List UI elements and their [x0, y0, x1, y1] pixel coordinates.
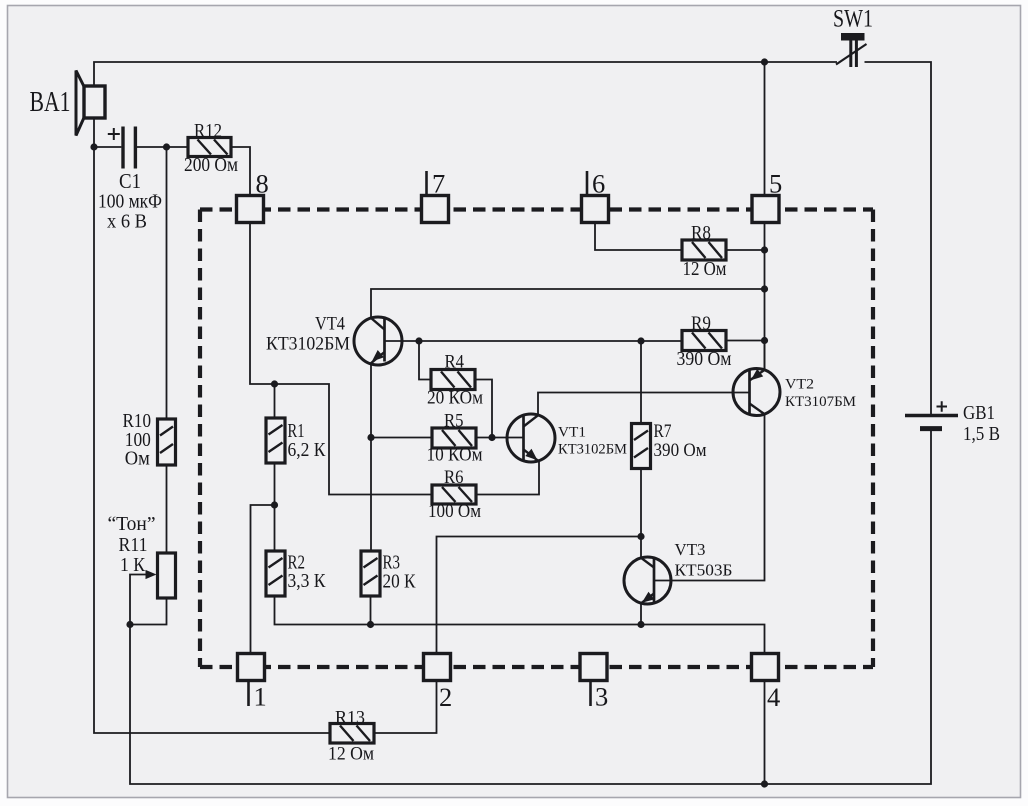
wire VT4 collector up and across to pin 5 column [371, 289, 765, 318]
wire R7 top lead [640, 341, 642, 424]
switch SW1 [836, 33, 867, 67]
wire R9 right to pin 5 column [726, 340, 765, 342]
resistor R12 [188, 138, 231, 157]
speaker BA1 [76, 71, 105, 136]
wire R1 node to pin 1 [251, 505, 275, 654]
wire SW1 to battery positive [865, 62, 932, 414]
wire pin 2 top to VT3 collector node [437, 537, 642, 654]
junction pin8/R1 [271, 380, 278, 387]
pin 3 stub [589, 681, 592, 706]
svg-text:VT4: VT4 [315, 315, 345, 335]
resistor R9 [682, 331, 726, 351]
wire VT4 emitter down to R3 top [370, 363, 372, 551]
svg-text:200 Ом: 200 Ом [184, 154, 238, 176]
svg-text:R12: R12 [194, 120, 222, 142]
wire C1 node down to R10 top [166, 147, 168, 420]
battery GB1 [905, 401, 958, 428]
pin 7 stub [425, 171, 428, 195]
junction top rail/pin5 [761, 58, 768, 65]
resistor R8 [682, 240, 726, 260]
wire VT3 base to VT2 collector [654, 414, 765, 580]
wire VT2 emitter up to R9 node [764, 341, 766, 370]
svg-text:C1: C1 [119, 169, 141, 193]
svg-text:2: 2 [439, 682, 452, 712]
pin 6 stub [586, 171, 589, 195]
svg-text:1: 1 [254, 682, 267, 712]
wire R12 right down to pin 8 [231, 147, 250, 196]
svg-text:390 Ом: 390 Ом [677, 348, 732, 370]
resistor R7 [632, 424, 651, 469]
pin 7 [422, 196, 449, 223]
wire R5 right to VT1 base [476, 437, 524, 439]
wire VT4 base rail to R9 left [385, 340, 683, 342]
svg-text:5: 5 [769, 169, 782, 199]
junction C1/R10 [163, 143, 170, 150]
svg-text:12 Ом: 12 Ом [328, 744, 374, 765]
svg-text:VT3: VT3 [675, 540, 706, 559]
svg-text:R6: R6 [444, 467, 464, 488]
wire R2 bottom rail to pin 4 top [275, 597, 765, 654]
resistor R1 [266, 418, 285, 463]
wire R8 right to pin 5 column [726, 249, 765, 251]
junction BA1/C1 [90, 143, 97, 150]
pin 3 [580, 654, 607, 681]
svg-text:КТ3102БМ: КТ3102БМ [266, 335, 350, 355]
svg-text:3: 3 [595, 682, 608, 712]
transistor VT4 [354, 317, 402, 365]
transistor VT1 [507, 414, 555, 462]
resistor R2 [266, 551, 285, 596]
junction R11 wiper [126, 621, 133, 628]
wire R1 top lead [274, 384, 276, 418]
svg-text:GB1: GB1 [963, 402, 995, 424]
pin 2 [424, 654, 451, 681]
pin 4 [752, 654, 779, 681]
svg-text:КТ503Б: КТ503Б [675, 561, 733, 580]
svg-text:х 6 В: х 6 В [107, 211, 147, 233]
pin 1 [238, 654, 265, 681]
pin 5 [752, 196, 779, 223]
wire VT3 emitter down [640, 603, 642, 624]
svg-text:R5: R5 [444, 411, 464, 432]
wire R5 left lead [371, 437, 432, 439]
resistor R3 [361, 551, 380, 596]
svg-text:20 КОм: 20 КОм [427, 388, 483, 409]
dashed IC boundary box (pins 1-8) [200, 210, 873, 668]
svg-text:R11: R11 [119, 534, 148, 556]
junction R5 left/VT4 emitter [367, 434, 374, 441]
junction y289 rail [761, 285, 768, 292]
wire BA1 node to C1 left plate [94, 146, 121, 148]
junction R9 right [761, 337, 768, 344]
junction R4/R5 right [488, 434, 495, 441]
svg-text:7: 7 [432, 169, 445, 199]
resistor R4 [431, 370, 475, 390]
svg-text:BA1: BA1 [30, 87, 71, 118]
wire pin 6 to R8 left [595, 223, 682, 251]
junction R9 left/R7 [637, 337, 644, 344]
svg-text:“Тон”: “Тон” [108, 513, 156, 535]
transistor VT2 [733, 369, 780, 416]
svg-text:SW1: SW1 [833, 6, 873, 33]
wire pin 4 down to bottom rail [764, 682, 766, 784]
wire R4 right lead down to R5 node [475, 380, 492, 438]
wire pin 5 column [764, 62, 766, 370]
wire R10 bottom to R11 top [166, 465, 168, 553]
junction VT3 emitter [637, 621, 644, 628]
svg-text:10 КОм: 10 КОм [427, 445, 483, 466]
svg-text:4: 4 [767, 682, 780, 712]
capacitor C1 [108, 127, 136, 169]
svg-text:R8: R8 [691, 222, 711, 244]
wire BA1 minus down to R13 left [94, 118, 330, 733]
svg-text:1 К: 1 К [120, 554, 146, 576]
svg-text:6: 6 [592, 169, 605, 199]
wire C1 right plate to R12 [137, 146, 188, 148]
svg-text:20 К: 20 К [383, 571, 417, 593]
svg-text:Ом: Ом [125, 448, 150, 470]
svg-text:R9: R9 [691, 313, 711, 335]
svg-text:3,3 К: 3,3 К [288, 570, 327, 592]
wire R7 bottom to VT3 collector [640, 469, 642, 558]
junction R8 right [761, 246, 768, 253]
wire R1 bottom to R2 top [274, 463, 276, 551]
svg-text:8: 8 [256, 169, 269, 199]
junction R7/pin2 [637, 533, 644, 540]
pin 8 [237, 196, 264, 223]
svg-text:VT2: VT2 [785, 377, 814, 393]
junction R1/R2/pin1 [271, 501, 278, 508]
svg-text:КТ3102БМ: КТ3102БМ [558, 442, 627, 458]
wire R6 right to VT1 emitter [476, 461, 539, 495]
junction R3 bottom [367, 621, 374, 628]
wire top rail from BA1 to SW1 [94, 62, 837, 86]
pin 6 [582, 196, 609, 223]
svg-text:6,2 К: 6,2 К [288, 439, 327, 461]
wire R11 bottom lead [130, 598, 167, 625]
wire R13 right up to pin 2 [374, 681, 437, 733]
svg-text:R4: R4 [445, 352, 465, 373]
svg-text:390 Ом: 390 Ом [654, 440, 707, 461]
svg-text:1,5 В: 1,5 В [963, 423, 1000, 445]
svg-text:100 мкФ: 100 мкФ [98, 191, 162, 213]
wire VT1 collector to VT2 base [538, 393, 750, 416]
svg-text:VT1: VT1 [558, 425, 586, 441]
svg-text:12 Ом: 12 Ом [683, 258, 727, 280]
potentiometer R11 [146, 553, 176, 598]
transistor VT3 [624, 557, 671, 604]
wire R4 left lead from base rail [419, 341, 431, 380]
wire R11 wiper to node [130, 575, 148, 625]
wire battery negative to bottom rail to R11 node [130, 430, 931, 784]
junction R4 left [415, 337, 422, 344]
resistor R5 [432, 428, 476, 448]
resistor R6 [432, 485, 476, 504]
svg-text:КТ3107БМ: КТ3107БМ [785, 394, 856, 410]
wire pin 8 down and across to R6 left [250, 223, 432, 495]
junction pin4/bottom rail [761, 780, 768, 787]
svg-text:100 Ом: 100 Ом [428, 501, 481, 522]
resistor R13 [330, 724, 374, 744]
pin 1 stub [247, 681, 250, 706]
svg-text:R13: R13 [335, 708, 365, 729]
svg-text:R7: R7 [654, 421, 672, 442]
resistor R10 [158, 419, 176, 465]
wire R3 bottom lead [370, 596, 372, 625]
